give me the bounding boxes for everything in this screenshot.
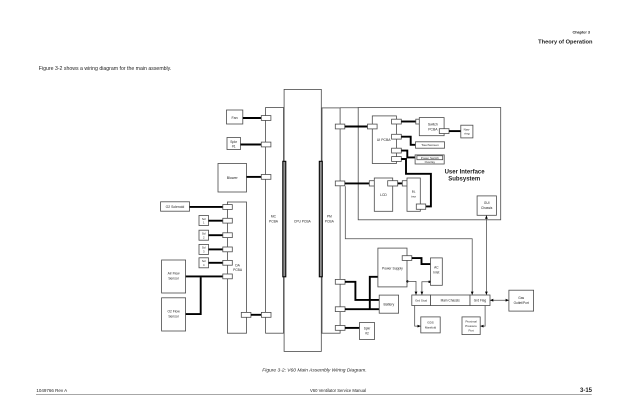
svg-text:Air Flow: Air Flow: [168, 272, 181, 276]
connector MC J-blower: [261, 175, 271, 180]
connector MC J-spkr1: [261, 142, 271, 147]
grd flag: [470, 295, 490, 306]
svg-text:Grd Stud: Grd Stud: [415, 299, 427, 303]
connector PM J-ps: [335, 279, 345, 284]
solenoid Sol 3: [199, 244, 209, 254]
arrow down into grd stud from AC inlet: [421, 292, 424, 295]
grd stud: [412, 295, 431, 306]
LCD: [374, 178, 392, 211]
svg-text:Subsystem: Subsystem: [448, 177, 480, 183]
wire sol1 to DA: [209, 220, 223, 222]
ground wire GUI chassis to grd flag: [485, 216, 487, 295]
GDE manifold: [421, 317, 440, 333]
wire PM to battery: [345, 308, 379, 310]
connector DA J-sol3: [223, 247, 233, 252]
fan: [227, 110, 243, 124]
arrow down into grd flag: [485, 292, 488, 295]
AC inlet: [431, 258, 443, 285]
arrow right into GDE manifold: [418, 325, 421, 328]
svg-text:Main Chassis: Main Chassis: [441, 299, 461, 303]
svg-text:1049766 Rev A: 1049766 Rev A: [36, 388, 67, 393]
switch PCBA: [419, 118, 444, 136]
connector LCD J1: [369, 181, 379, 186]
wire PM to UI PCBA: [345, 126, 368, 128]
connector UI J4: [392, 157, 402, 162]
arrow down into grd flag from PM: [471, 292, 474, 295]
svg-text:DA: DA: [235, 263, 240, 267]
svg-text:V60 Ventilator Service Manual: V60 Ventilator Service Manual: [310, 388, 366, 393]
connector MC J-fan: [261, 116, 271, 121]
svg-text:Proximal: Proximal: [465, 320, 477, 324]
svg-text:#2: #2: [365, 331, 369, 335]
connector BL J2: [416, 204, 425, 209]
connector DA J-sol2: [223, 233, 233, 238]
wire O2 flow joining air flow wire: [186, 277, 201, 314]
wire PM to LCD: [345, 182, 370, 184]
ground wire grd flag to proximal pressure port: [481, 306, 486, 327]
wire switch to nav-ring: [449, 130, 461, 132]
board-to-board connector bar MC-CPU: [283, 161, 286, 276]
ground wire grd stud to GDE manifold: [415, 306, 421, 327]
MC PCBA column: [266, 108, 284, 334]
main chassis: [431, 295, 471, 306]
svg-text:Figure 3-2 shows a wiring diag: Figure 3-2 shows a wiring diagram for th…: [39, 66, 172, 72]
speaker 2: [360, 323, 375, 340]
wire PM to battery top feed: [345, 282, 379, 300]
CPU PCBA board: [284, 89, 321, 351]
UI PCBA: [372, 116, 396, 164]
ground wire grd flag to gas outlet: [490, 299, 509, 301]
svg-text:UI PCBA: UI PCBA: [377, 138, 391, 142]
svg-text:Outlet/Port: Outlet/Port: [514, 301, 529, 305]
connector UI J2: [392, 134, 402, 139]
connector PM J-ui: [335, 124, 345, 129]
board-to-board connector bar CPU-PM: [319, 161, 322, 276]
arrow left into proximal pressure port: [480, 325, 483, 328]
wire spkr1 to MC: [241, 144, 262, 146]
wire UI to switch PCBA: [401, 121, 416, 123]
connector DA J-sol4: [223, 260, 233, 265]
wire fan to MC: [243, 117, 261, 119]
air flow sensor: [162, 260, 186, 293]
wire PM top to UI subsystem corner: [340, 107, 358, 109]
wire PM to speaker 2: [345, 327, 360, 329]
speaker 1: [227, 138, 241, 150]
connector DA J-mc: [241, 312, 251, 317]
svg-text:Sol: Sol: [202, 232, 206, 236]
power switch overlay: [415, 155, 444, 164]
svg-text:Overlay: Overlay: [425, 160, 436, 164]
solenoid Sol 1: [199, 216, 209, 226]
svg-text:Figure 3-2: V60 Main Assembly: Figure 3-2: V60 Main Assembly Wiring Dia…: [262, 368, 366, 374]
wire blower to MC: [247, 176, 262, 178]
connector DA J-flow: [223, 274, 233, 279]
svg-text:Spkr: Spkr: [230, 140, 238, 144]
wire sol4 to DA: [209, 262, 223, 264]
svg-text:Fan: Fan: [231, 116, 237, 120]
ground wire PM to grd flag: [345, 186, 472, 295]
connector switch J-nav: [439, 129, 449, 134]
svg-text:LCD: LCD: [380, 193, 387, 197]
svg-text:PCBA: PCBA: [269, 219, 279, 223]
svg-text:Sensor: Sensor: [168, 315, 179, 319]
connector PM J-spkr2: [335, 326, 345, 331]
power supply: [378, 248, 407, 287]
connector MC J-da: [261, 312, 271, 317]
svg-text:Power Supply: Power Supply: [382, 266, 403, 270]
svg-text:3-15: 3-15: [580, 388, 593, 394]
svg-text:AC: AC: [434, 266, 439, 270]
svg-text:O2 Solenoid: O2 Solenoid: [166, 205, 185, 209]
junction dot power supply ground: [406, 280, 408, 282]
arrow left into grd flag: [490, 299, 493, 302]
svg-text:Blower: Blower: [227, 176, 239, 180]
svg-text:PCBA: PCBA: [233, 268, 243, 272]
connector switch J-in: [416, 119, 426, 124]
touchscreen: [416, 142, 445, 148]
DA PCBA column: [227, 202, 246, 333]
nav-ring: [461, 125, 473, 138]
blower: [218, 164, 247, 193]
wire DA to MC: [251, 314, 262, 316]
proximal pressure port: [462, 317, 480, 335]
connector PM J-lcd: [335, 181, 345, 186]
svg-text:Touchscreen: Touchscreen: [421, 143, 439, 147]
svg-text:PCBA: PCBA: [325, 219, 335, 223]
wire LCD to BL inverter: [398, 182, 403, 184]
arrow down into grd stud from power supply: [415, 292, 418, 295]
battery: [379, 295, 398, 313]
svg-text:Gas: Gas: [518, 296, 524, 300]
svg-text:Sensor: Sensor: [168, 277, 179, 281]
svg-text:Sol: Sol: [202, 217, 206, 221]
svg-text:BL: BL: [412, 190, 416, 194]
junction dot AC inlet ground: [428, 281, 430, 283]
gas outlet port: [509, 290, 534, 311]
svg-text:O2 Flow: O2 Flow: [167, 310, 180, 314]
wire UI to touchscreen: [401, 137, 415, 145]
wire battery feed to power supply: [370, 277, 378, 309]
connector UI J1: [392, 119, 402, 124]
connector LCD J2: [388, 181, 398, 186]
svg-text:Port: Port: [468, 329, 473, 333]
svg-text:invr: invr: [411, 195, 416, 199]
wire O2 solenoid to DA: [190, 206, 223, 208]
svg-text:User Interface: User Interface: [445, 169, 486, 175]
wire sol3 to DA: [209, 248, 223, 250]
svg-text:PCBA: PCBA: [428, 127, 438, 131]
svg-text:MC: MC: [271, 214, 277, 218]
svg-text:Manifold: Manifold: [425, 326, 437, 330]
connector UI J-in: [368, 124, 378, 129]
svg-text:ring: ring: [464, 132, 469, 136]
GUI chassis: [477, 196, 496, 215]
user interface subsystem boundary: [358, 108, 501, 220]
ground wire power supply to grd stud: [407, 281, 416, 294]
svg-text:Switch: Switch: [428, 123, 438, 127]
svg-text:GUI: GUI: [484, 201, 490, 205]
wire UI to power switch overlay: [401, 151, 415, 158]
svg-text:Theory of Operation: Theory of Operation: [538, 40, 593, 46]
solenoid Sol 2: [199, 230, 209, 240]
svg-text:Sol: Sol: [202, 246, 206, 250]
svg-text:Chapter 3: Chapter 3: [572, 31, 590, 35]
wire sol2 to DA: [209, 234, 223, 236]
wire power supply to AC inlet: [412, 258, 431, 264]
connector DA J-sol1: [223, 218, 233, 223]
svg-text:Battery: Battery: [384, 303, 395, 307]
svg-text:CPU PCBA: CPU PCBA: [294, 219, 312, 223]
connector DA J-o2sol: [223, 205, 233, 210]
connector power supply J-ac: [402, 256, 412, 261]
wire UI to backlight inverter: [401, 159, 431, 206]
PM PCBA column: [322, 108, 340, 333]
solenoid Sol 4: [199, 258, 209, 268]
footer rule: [36, 393, 592, 395]
arrow up into GUI chassis: [485, 215, 488, 218]
svg-text:Pressure: Pressure: [465, 324, 477, 328]
connector BL J1: [402, 181, 411, 186]
svg-text:PM: PM: [327, 214, 332, 218]
O2 flow sensor: [162, 298, 186, 331]
svg-text:Spkr: Spkr: [364, 327, 371, 331]
backlight inverter BL invr: [407, 178, 420, 211]
O2 solenoid: [161, 202, 190, 211]
svg-text:Sol: Sol: [202, 259, 206, 263]
svg-text:Grd Flag: Grd Flag: [474, 299, 487, 303]
arrow right into gas outlet: [506, 299, 509, 302]
connector UI J3: [392, 148, 402, 153]
svg-text:#1: #1: [232, 144, 236, 148]
svg-text:GDS: GDS: [427, 321, 434, 325]
wire air flow to DA: [186, 275, 223, 277]
connector PM J-bat: [335, 307, 345, 312]
ground wire AC inlet to grd stud: [422, 282, 429, 295]
svg-text:Chassis: Chassis: [481, 206, 493, 210]
svg-text:Inlet: Inlet: [433, 271, 439, 275]
